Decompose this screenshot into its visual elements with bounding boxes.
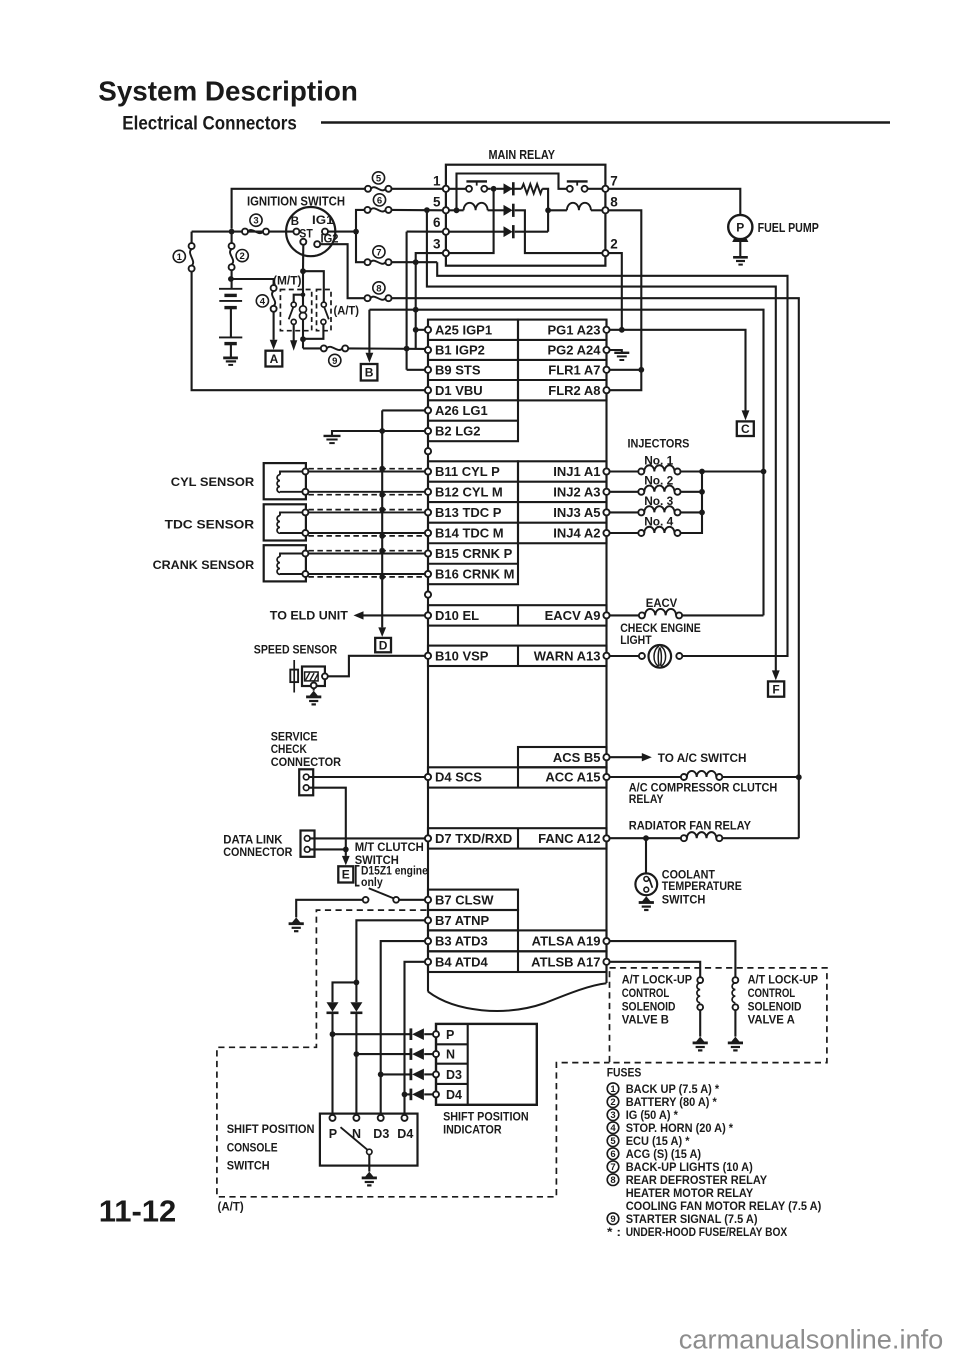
svg-text:A/T LOCK-UP: A/T LOCK-UP bbox=[748, 973, 818, 987]
label fuse 9 bbox=[329, 354, 341, 366]
wire: N vertical bbox=[355, 1014, 357, 1115]
ECU connector cells bbox=[428, 320, 518, 442]
speed sensor bbox=[302, 667, 325, 687]
svg-text:D3: D3 bbox=[446, 1068, 462, 1082]
wire: SCS jumper bbox=[309, 788, 346, 850]
svg-text:7: 7 bbox=[376, 247, 381, 258]
bus D (injector/EACV feed) bbox=[369, 310, 763, 616]
wire: clutch switch to ground bbox=[296, 900, 363, 918]
clutch interlock coil bbox=[300, 306, 307, 313]
wire: B7 CLSW right bbox=[399, 899, 425, 901]
coolant temp switch bbox=[635, 873, 657, 895]
bus C (fuse8 to relays) bbox=[392, 298, 799, 838]
CRANK sensor bbox=[264, 545, 306, 581]
wire: speed sensor ground bbox=[313, 688, 315, 690]
wire: branch to M/T switch bbox=[294, 295, 303, 302]
ground: console switch bbox=[365, 1172, 374, 1178]
svg-text:PG1 A23: PG1 A23 bbox=[548, 322, 601, 337]
connector box A bbox=[266, 351, 283, 367]
svg-text:2: 2 bbox=[240, 251, 245, 262]
wire: EACV to busD bbox=[682, 614, 763, 616]
svg-text:7: 7 bbox=[610, 174, 618, 189]
svg-text:6: 6 bbox=[433, 215, 441, 230]
node: pin5 inner dot bbox=[454, 207, 460, 213]
svg-text:INJ2 A3: INJ2 A3 bbox=[553, 484, 600, 499]
wire: battery link bbox=[230, 308, 232, 338]
svg-text:INJ4 A2: INJ4 A2 bbox=[553, 526, 600, 541]
wire: ST to A/T switch bbox=[303, 271, 324, 301]
relay inner top link bbox=[457, 174, 567, 211]
label fuse 6 bbox=[373, 194, 385, 206]
arrow into C bbox=[742, 410, 750, 420]
wire: ATLSB A17 bbox=[610, 962, 701, 977]
svg-text:SHIFT POSITION: SHIFT POSITION bbox=[227, 1122, 315, 1136]
fuse 2 bbox=[231, 232, 233, 244]
relay pin 7 bbox=[602, 186, 608, 192]
A/T lock-up solenoid A bbox=[733, 977, 739, 983]
TDC sensor bbox=[264, 504, 306, 540]
fuse 8 bbox=[365, 295, 371, 301]
node: battery junction bbox=[228, 276, 234, 282]
svg-text:TO ELD UNIT: TO ELD UNIT bbox=[270, 608, 349, 622]
relay coil 2 bbox=[548, 209, 567, 211]
node: busD fuse7 dot bbox=[413, 307, 419, 313]
node: A25 dot bbox=[413, 327, 419, 333]
fuse 9 bbox=[321, 345, 327, 351]
svg-text:D: D bbox=[379, 638, 388, 652]
relay contact 2 bbox=[567, 186, 573, 192]
ignition switch body circle bbox=[286, 207, 335, 256]
svg-text:* :: * : bbox=[607, 1225, 621, 1239]
fuse 7 bbox=[365, 259, 371, 265]
svg-text:P: P bbox=[329, 1127, 337, 1141]
svg-text:5: 5 bbox=[610, 1136, 616, 1147]
injector coils bbox=[610, 470, 639, 472]
relay coil 1 bbox=[449, 209, 464, 211]
wire: D3 out up bbox=[515, 231, 548, 233]
wire: IG2 to fuse8 bbox=[320, 244, 364, 298]
shift position indicator box bbox=[436, 1024, 537, 1105]
wire: B2 LG2 ground bbox=[332, 431, 425, 435]
svg-text:ATLSA A19: ATLSA A19 bbox=[532, 934, 601, 949]
fuse 5 bbox=[365, 186, 371, 192]
node: PG1 dot bbox=[619, 327, 625, 333]
svg-text:TEMPERATURE: TEMPERATURE bbox=[662, 879, 742, 893]
wire: battery feed bus y231.6 bbox=[192, 231, 294, 233]
svg-text:A: A bbox=[270, 352, 279, 366]
svg-text:DATA LINK: DATA LINK bbox=[223, 832, 282, 846]
node: feed junction dot bbox=[229, 229, 235, 235]
node: contact1 out dot bbox=[491, 186, 497, 192]
svg-text:6: 6 bbox=[610, 1149, 615, 1160]
svg-text:ACC A15: ACC A15 bbox=[545, 770, 600, 785]
svg-text:UNDER-HOOD FUSE/RELAY BOX: UNDER-HOOD FUSE/RELAY BOX bbox=[626, 1225, 788, 1239]
svg-text:B16 CRNK M: B16 CRNK M bbox=[435, 567, 514, 582]
svg-text:No. 1: No. 1 bbox=[644, 453, 673, 467]
ECU bottom wavy edge bbox=[428, 983, 607, 1011]
relay pin 8 bbox=[602, 207, 608, 213]
shift console switch box bbox=[320, 1114, 418, 1166]
arrow into D bbox=[378, 627, 386, 637]
svg-text:3: 3 bbox=[610, 1110, 615, 1121]
svg-text:TO A/C SWITCH: TO A/C SWITCH bbox=[658, 751, 747, 765]
svg-text:8: 8 bbox=[376, 283, 381, 294]
svg-text:(A/T): (A/T) bbox=[218, 1200, 244, 1214]
label fuse 4 bbox=[256, 295, 268, 307]
svg-text:INJ1 A1: INJ1 A1 bbox=[553, 464, 600, 479]
node: ST junction bbox=[300, 268, 306, 274]
wire: SCS bbox=[309, 776, 425, 778]
svg-text:2: 2 bbox=[610, 1097, 615, 1108]
svg-text:FUSES: FUSES bbox=[607, 1065, 642, 1079]
wire: fuse5 to relay pin1 bbox=[392, 188, 443, 190]
wire: fuse2 to battery node bbox=[231, 270, 233, 289]
svg-text:A/T LOCK-UP: A/T LOCK-UP bbox=[622, 973, 692, 987]
svg-text:D10 EL: D10 EL bbox=[435, 608, 479, 623]
wire: coil down bbox=[302, 319, 304, 348]
fuse 6 bbox=[365, 207, 371, 213]
svg-text:B2 LG2: B2 LG2 bbox=[435, 424, 481, 439]
wire: battery to ground bbox=[230, 344, 232, 358]
svg-text:B14 TDC M: B14 TDC M bbox=[435, 526, 504, 541]
svg-text:CONNECTOR: CONNECTOR bbox=[223, 845, 292, 859]
node: busD INJ1 dot bbox=[761, 469, 767, 475]
wire: N vertical top bbox=[355, 982, 357, 1002]
svg-text:VALVE A: VALVE A bbox=[748, 1013, 795, 1027]
M/T switch contact top bbox=[291, 302, 296, 307]
ground: clutch switch bbox=[292, 917, 301, 923]
svg-text:FUEL PUMP: FUEL PUMP bbox=[758, 221, 819, 235]
clutch switch bbox=[393, 897, 399, 903]
indicator diode N bbox=[409, 1048, 412, 1060]
svg-text:Electrical Connectors: Electrical Connectors bbox=[122, 113, 297, 135]
svg-text:5: 5 bbox=[376, 173, 382, 184]
label fuse 2 bbox=[236, 250, 248, 262]
radiator fan relay coil bbox=[610, 837, 681, 839]
svg-text:1: 1 bbox=[433, 174, 441, 189]
svg-text:SOLENOID: SOLENOID bbox=[748, 999, 802, 1013]
A/T switch contact bottom bbox=[321, 319, 326, 324]
dashed A/T enclosure bbox=[217, 910, 610, 1197]
wire: FANC to busC bbox=[722, 837, 799, 839]
wire: relay pin6 feed bbox=[406, 232, 408, 370]
svg-text:System Description: System Description bbox=[98, 76, 358, 107]
svg-text:A25 IGP1: A25 IGP1 bbox=[435, 322, 492, 337]
svg-text:P: P bbox=[446, 1028, 454, 1042]
wire: pin7 to fuel pump bbox=[609, 189, 741, 215]
svg-text:STARTER SIGNAL (7.5 A): STARTER SIGNAL (7.5 A) bbox=[626, 1212, 758, 1226]
svg-text:REAR DEFROSTER RELAY: REAR DEFROSTER RELAY bbox=[626, 1173, 767, 1187]
wire: pin3 inner bbox=[449, 189, 494, 253]
svg-text:RELAY: RELAY bbox=[629, 792, 664, 806]
relay pin 2 bbox=[602, 250, 608, 256]
svg-text:FANC A12: FANC A12 bbox=[538, 831, 600, 846]
A/T lock-up solenoid B bbox=[697, 977, 703, 983]
terminal IG2 bbox=[314, 241, 320, 247]
svg-text:B7 ATNP: B7 ATNP bbox=[435, 913, 490, 928]
svg-text:E: E bbox=[342, 868, 350, 882]
wire: B4 ATD4 vertical bbox=[405, 962, 425, 1115]
wire: resistor out drop bbox=[542, 189, 548, 232]
svg-text:IG1: IG1 bbox=[312, 215, 334, 227]
svg-text:B12 CYL M: B12 CYL M bbox=[435, 484, 503, 499]
node: D4 dot bbox=[402, 1092, 408, 1098]
svg-text:(A/T): (A/T) bbox=[334, 304, 360, 318]
header rule line bbox=[321, 121, 890, 124]
wire: A25 branch bbox=[416, 329, 425, 331]
svg-text:B10 VSP: B10 VSP bbox=[435, 648, 489, 663]
svg-text:FLR1 A7: FLR1 A7 bbox=[548, 362, 600, 377]
relay pin 5 bbox=[443, 207, 449, 213]
wire: to B9 STS bbox=[407, 369, 425, 371]
svg-text:ACG (S) (15 A): ACG (S) (15 A) bbox=[626, 1147, 701, 1161]
wire: B7 ATNP bbox=[356, 920, 424, 982]
svg-text:A26 LG1: A26 LG1 bbox=[435, 403, 488, 418]
svg-text:1: 1 bbox=[177, 252, 183, 263]
wire: N row bbox=[356, 1053, 411, 1055]
ECU pin circles bbox=[425, 327, 431, 333]
wire: D3 row bbox=[381, 1073, 411, 1075]
svg-text:No. 4: No. 4 bbox=[644, 515, 673, 529]
svg-text:WARN A13: WARN A13 bbox=[534, 648, 601, 663]
label fuse 3 bbox=[250, 214, 262, 226]
arrow into A bbox=[270, 340, 278, 350]
node: fuse7/pin3 vertical dot bbox=[413, 259, 419, 265]
relay pin 1 bbox=[443, 186, 449, 192]
service check connector bbox=[299, 769, 313, 795]
node: diode split dot bbox=[354, 980, 360, 986]
ECU right edge bbox=[605, 320, 607, 983]
svg-text:8: 8 bbox=[610, 1175, 615, 1186]
svg-text:INJ3 A5: INJ3 A5 bbox=[553, 505, 600, 520]
indicator diode D4 bbox=[409, 1089, 412, 1101]
svg-text:3: 3 bbox=[253, 216, 258, 227]
svg-text:CRANK SENSOR: CRANK SENSOR bbox=[153, 558, 255, 572]
wire: A26 LG1 bbox=[382, 409, 425, 411]
svg-text:No. 2: No. 2 bbox=[644, 474, 673, 488]
wire: B10 VSP to speed sensor bbox=[328, 656, 425, 677]
connector box C bbox=[737, 421, 754, 436]
relay pin 3 bbox=[443, 250, 449, 256]
svg-text:6: 6 bbox=[377, 195, 382, 206]
node: bus C to A/C relay bbox=[796, 774, 802, 780]
svg-text:D3: D3 bbox=[373, 1127, 389, 1141]
svg-text:SWITCH: SWITCH bbox=[662, 893, 706, 907]
svg-text:IG (50 A) *: IG (50 A) * bbox=[626, 1108, 678, 1122]
svg-text:IGNITION SWITCH: IGNITION SWITCH bbox=[247, 193, 345, 208]
indicator diode D3 bbox=[409, 1069, 412, 1081]
svg-text:RADIATOR FAN RELAY: RADIATOR FAN RELAY bbox=[629, 819, 752, 833]
svg-text:ACS B5: ACS B5 bbox=[553, 750, 601, 765]
svg-text:SPEED SENSOR: SPEED SENSOR bbox=[254, 643, 337, 657]
wire: D2 out to pin2 bbox=[515, 210, 603, 253]
svg-text:B1 IGP2: B1 IGP2 bbox=[435, 343, 485, 358]
svg-text:9: 9 bbox=[332, 356, 337, 367]
wire: ACS B5 arrow bbox=[610, 756, 643, 758]
svg-text:SWITCH: SWITCH bbox=[227, 1159, 270, 1173]
wire: battery node to fuse4 bbox=[231, 279, 274, 285]
wire: to diode D1 bbox=[496, 188, 503, 190]
indicator pins bbox=[433, 1031, 439, 1037]
svg-text:BACK-UP LIGHTS (10 A): BACK-UP LIGHTS (10 A) bbox=[626, 1160, 753, 1174]
wire: P row bbox=[333, 1033, 411, 1035]
wire: fuse7 out bbox=[392, 261, 438, 263]
ground: battery bbox=[223, 356, 238, 359]
relay contact 1 bbox=[449, 188, 466, 190]
injector common vertical bbox=[681, 491, 703, 493]
svg-text:FLR2 A8: FLR2 A8 bbox=[548, 383, 600, 398]
svg-text:HEATER MOTOR RELAY: HEATER MOTOR RELAY bbox=[626, 1186, 754, 1200]
svg-text:MAIN RELAY: MAIN RELAY bbox=[489, 148, 556, 162]
EACV coil bbox=[610, 614, 639, 616]
svg-text:SOLENOID: SOLENOID bbox=[622, 999, 676, 1013]
wire: pin6 horizontal bbox=[407, 231, 443, 233]
sensor wires with shields bbox=[308, 471, 424, 473]
svg-text:ECU (15 A) *: ECU (15 A) * bbox=[626, 1134, 690, 1148]
battery B2 bbox=[219, 336, 242, 338]
svg-text:D7 TXD/RXD: D7 TXD/RXD bbox=[435, 831, 512, 846]
svg-text:CONTROL: CONTROL bbox=[622, 986, 670, 1000]
bus B (to connector F) bbox=[427, 210, 776, 671]
node: IG1 junction bbox=[353, 229, 359, 235]
svg-text:B: B bbox=[291, 216, 299, 228]
A/T switch contact top bbox=[321, 302, 326, 307]
wire: fuse6 to relay pin5 bbox=[392, 209, 443, 212]
svg-text:COOLING FAN MOTOR RELAY (7.5 A: COOLING FAN MOTOR RELAY (7.5 A) bbox=[626, 1199, 822, 1213]
label fuse 7 bbox=[373, 246, 385, 258]
wire: TXD/RXD bbox=[310, 837, 425, 839]
fuse 3 bbox=[242, 229, 248, 235]
svg-text:9: 9 bbox=[610, 1214, 615, 1225]
connector box E bbox=[338, 866, 353, 882]
svg-text:D4 SCS: D4 SCS bbox=[435, 770, 482, 785]
terminal B bbox=[293, 229, 299, 235]
wire: fuse4 to arrow bbox=[273, 312, 275, 340]
wire: wiper to ground bbox=[368, 1155, 370, 1172]
svg-text:B13 TDC P: B13 TDC P bbox=[435, 505, 502, 520]
arrow down (M/T continues) bbox=[290, 340, 297, 351]
svg-text:CYL SENSOR: CYL SENSOR bbox=[171, 475, 254, 489]
svg-text:2: 2 bbox=[610, 237, 618, 252]
ground: speed sensor bbox=[309, 691, 318, 697]
battery B1 bbox=[219, 288, 242, 290]
indicator diode P bbox=[409, 1028, 412, 1040]
svg-text:B: B bbox=[365, 366, 374, 380]
wire: PG2 ground bbox=[610, 350, 622, 352]
wire: pin8 to FLR1/FLR2 bbox=[609, 210, 642, 390]
node: N dot bbox=[354, 1051, 360, 1057]
wire: ACC to busC bbox=[722, 776, 799, 778]
dashed box (A/T) bbox=[317, 290, 332, 331]
node: inj common dots bbox=[699, 469, 705, 475]
svg-text:4: 4 bbox=[610, 1123, 616, 1134]
svg-text:B3 ATD3: B3 ATD3 bbox=[435, 934, 488, 949]
wire: to coolant switch bbox=[645, 838, 647, 873]
svg-text:B9 STS: B9 STS bbox=[435, 362, 481, 377]
svg-text:SHIFT POSITION: SHIFT POSITION bbox=[443, 1110, 529, 1124]
svg-text:ST: ST bbox=[299, 229, 313, 241]
ECU left edge bbox=[427, 320, 429, 992]
connector box B bbox=[361, 364, 378, 381]
node: dot B9 vertical bbox=[404, 346, 410, 352]
svg-text:EACV: EACV bbox=[646, 596, 678, 610]
node: E branch dot bbox=[343, 847, 349, 853]
node: pin5 branch dot bbox=[424, 207, 430, 213]
svg-text:B15 CRNK P: B15 CRNK P bbox=[435, 546, 513, 561]
fuse 4 bbox=[271, 285, 277, 291]
label fuse 8 bbox=[373, 282, 385, 294]
relay pin 6 bbox=[443, 229, 449, 235]
diode N branch bbox=[350, 1002, 362, 1012]
svg-text:N: N bbox=[446, 1048, 455, 1062]
diode D2 bbox=[504, 205, 513, 216]
wire: pump to ground bbox=[739, 242, 741, 257]
fuse 1 bbox=[191, 232, 193, 244]
wire: DLC low bbox=[310, 848, 346, 850]
wire: to fuse6 bbox=[356, 210, 365, 232]
ground: PG2 bbox=[614, 352, 629, 354]
wire: pin2 to PG1 bbox=[609, 253, 622, 330]
wire: FLR1 branch bbox=[610, 369, 642, 371]
wire: ATLSA A19 bbox=[610, 941, 736, 977]
svg-text:PG2 A24: PG2 A24 bbox=[548, 343, 602, 358]
wire: fuse1 down to D1 VBU bus bbox=[192, 272, 425, 391]
wire: split to P branch bbox=[333, 982, 357, 1002]
wire: fuse5 branch bbox=[232, 189, 365, 229]
dashed box (M/T) bbox=[280, 290, 311, 331]
svg-text:D4: D4 bbox=[397, 1127, 413, 1141]
wire: D1 to resistor bbox=[511, 188, 521, 190]
node: D3 dot bbox=[378, 1072, 384, 1078]
svg-text:(M/T): (M/T) bbox=[273, 273, 302, 287]
dashed solenoid box bbox=[610, 968, 827, 1063]
ground: fuel pump bbox=[733, 256, 748, 259]
check engine lamp bbox=[610, 655, 639, 657]
svg-text:LIGHT: LIGHT bbox=[620, 633, 652, 647]
svg-text:CHECK: CHECK bbox=[271, 742, 307, 756]
node: M/T branch dot bbox=[301, 292, 306, 297]
svg-text:11-12: 11-12 bbox=[99, 1193, 177, 1228]
A/C compressor relay coil bbox=[610, 776, 681, 778]
node: coil2 feed dot bbox=[545, 207, 551, 213]
wire: IG1 out bbox=[328, 231, 356, 233]
svg-text:4: 4 bbox=[260, 296, 266, 307]
svg-text:INDICATOR: INDICATOR bbox=[443, 1123, 502, 1137]
svg-text:B7 CLSW: B7 CLSW bbox=[435, 892, 494, 907]
wire: PG1 A23 to C bbox=[610, 330, 746, 411]
svg-text:C: C bbox=[741, 422, 750, 436]
svg-text:CONSOLE: CONSOLE bbox=[227, 1140, 278, 1154]
shield drain vertical bbox=[381, 410, 383, 627]
wire: M/T switch to arrow bbox=[293, 324, 295, 340]
diode D3 bbox=[504, 226, 513, 237]
fuse list bbox=[607, 1083, 619, 1095]
arrow into E bbox=[345, 849, 347, 856]
svg-text:B11 CYL P: B11 CYL P bbox=[435, 464, 500, 479]
svg-text:STOP. HORN (20 A) *: STOP. HORN (20 A) * bbox=[626, 1121, 734, 1135]
label fuse 1 bbox=[173, 250, 185, 262]
arrow into F bbox=[772, 670, 780, 680]
svg-text:only: only bbox=[361, 875, 383, 889]
console pins bbox=[330, 1115, 336, 1121]
resistor R1 bbox=[522, 184, 543, 194]
CYL sensor bbox=[264, 463, 306, 499]
svg-text:3: 3 bbox=[433, 237, 441, 252]
svg-text:F: F bbox=[772, 682, 779, 696]
wire: pin6 inner bbox=[449, 231, 504, 233]
svg-text:CONNECTOR: CONNECTOR bbox=[271, 755, 341, 769]
console wiper blade bbox=[341, 1127, 368, 1150]
